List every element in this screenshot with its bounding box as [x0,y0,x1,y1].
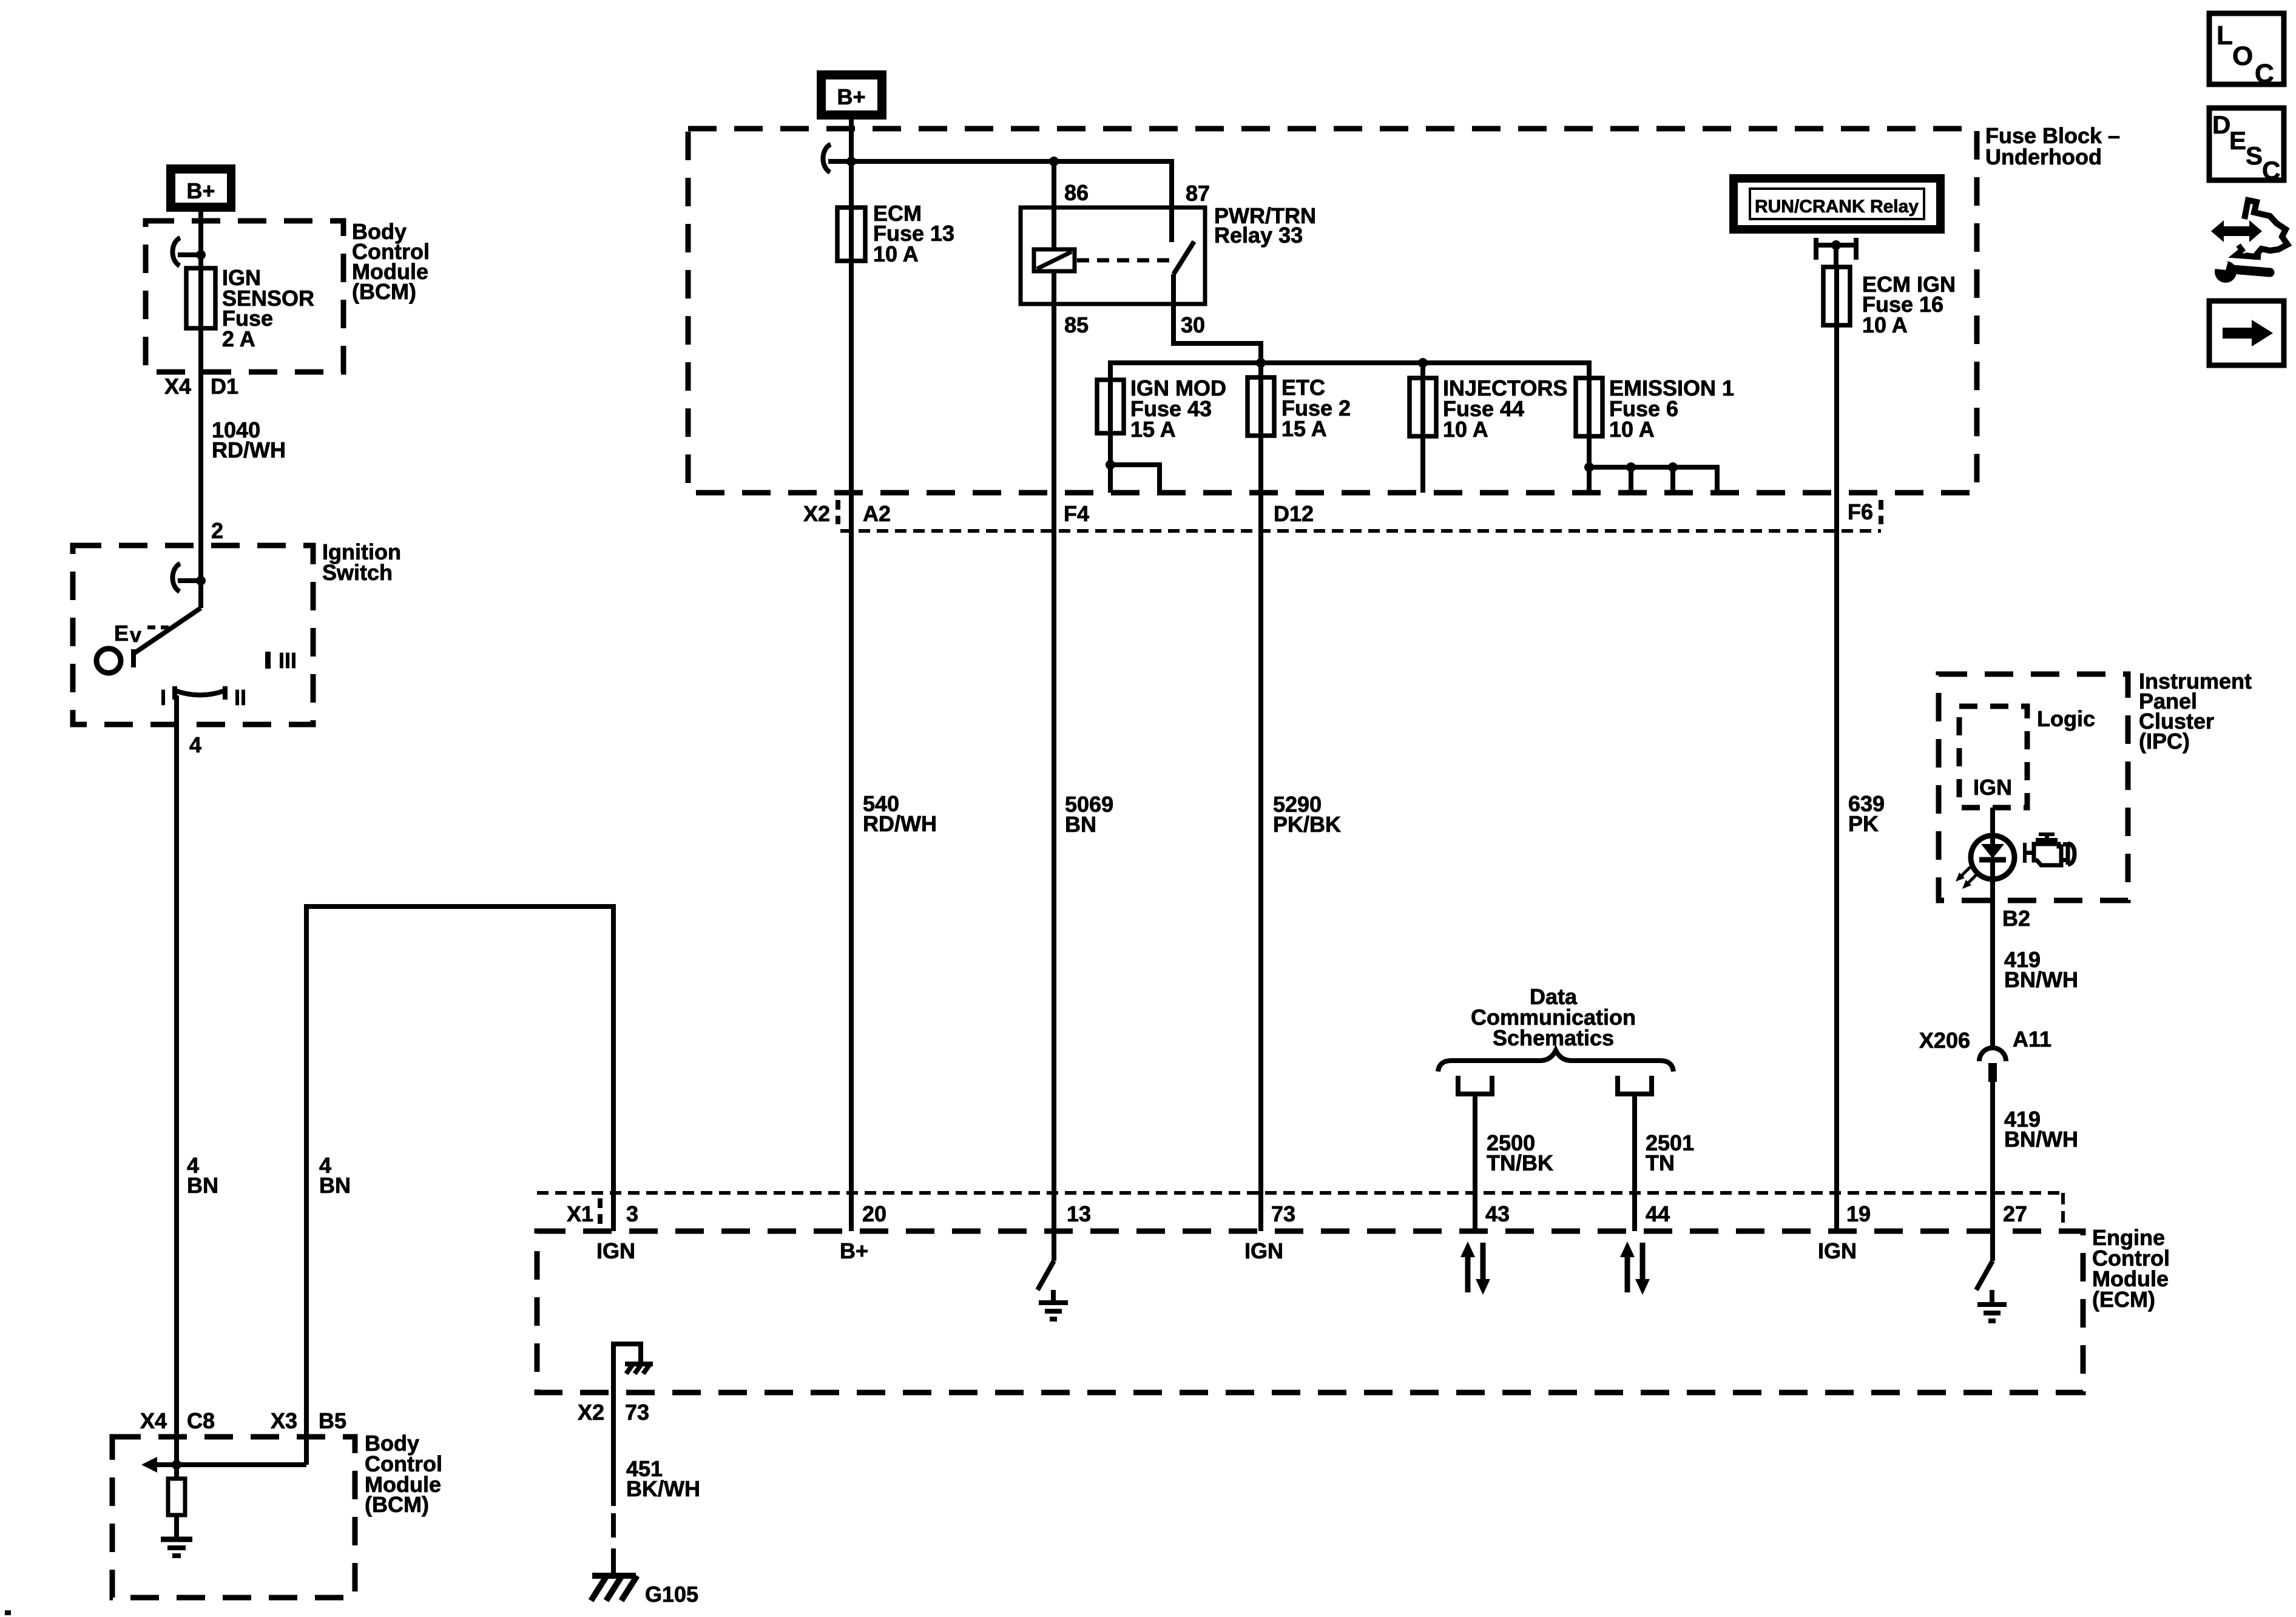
svg-text:87: 87 [1186,181,1210,206]
fuse INJECTORS Fuse 44 10A [1410,378,1436,436]
connector X2 dotted line [840,529,1881,533]
body control module (BCM) bottom box [112,1437,355,1598]
svg-text:RD/WH: RD/WH [212,437,286,462]
fuse EMISSION 1 Fuse 6 10A [1576,378,1602,436]
svg-text:3: 3 [626,1201,638,1226]
fuse IGN MOD Fuse 43 15A [1097,380,1124,433]
wire bus to relay [851,161,1172,208]
svg-text:C: C [2255,59,2274,89]
fuse ECM Fuse 13 10A [837,208,865,261]
switch rotor circle [96,649,121,673]
svg-text:BK/WH: BK/WH [626,1476,700,1501]
svg-text:D: D [2212,110,2230,139]
wire loop to ECM pin 3 [306,906,613,1465]
wire B+ into fuse block [849,120,854,208]
fuse ETC Fuse 2 15A [1248,377,1274,436]
wire LED to B2 pin [1990,879,1995,1048]
ECM fuse 13 label [873,201,954,266]
svg-text:II: II [234,685,246,710]
ECM label [2092,1225,2170,1312]
svg-text:X3: X3 [271,1408,297,1433]
pin 44 data arrows [1620,1241,1650,1295]
position marks I III [265,648,297,673]
RUN/CRANK Relay label box [1734,178,1940,229]
connector symbol 2501 [1615,1076,1654,1096]
wire label 4 BN (right) [319,1153,351,1198]
ground G105 [591,1576,698,1607]
svg-text:BN: BN [187,1173,218,1198]
connector X2 (ECM bottom) labels [578,1400,649,1425]
battery feed B+ (fuse block) [817,70,886,120]
pin 73 internal chassis ground hook [613,1344,641,1393]
relay output bracket [1816,238,1856,267]
node fuse 43 output [1106,460,1115,470]
svg-text:A11: A11 [2013,1027,2051,1052]
svg-text:X4: X4 [164,374,191,399]
engine icon [2023,832,2075,865]
svg-text:30: 30 [1181,312,1205,337]
relay pin labels [1064,180,1210,337]
wire pin 30 to fuse bus [1173,304,1261,363]
svg-text:(BCM): (BCM) [365,1492,429,1517]
wire label 639 PK [1848,791,1885,836]
ground (pin 27) [1977,1305,2007,1321]
svg-text:4: 4 [189,732,201,757]
svg-text:73: 73 [625,1400,649,1425]
EMISSION 1 fuse label [1609,376,1734,442]
connector labels X4 C8 X3 B5 [140,1408,346,1433]
svg-text:2 A: 2 A [222,326,255,351]
wire label 451 BK/WH [626,1456,700,1501]
svg-text:D12: D12 [1274,501,1314,526]
svg-text:BN: BN [319,1173,351,1198]
svg-text:D1: D1 [211,374,238,399]
position arc I-II [160,685,246,710]
pin 27 internal switch to ground [1976,1231,1993,1305]
wire ETC fuse feed [1258,363,1263,377]
wire under fuse 43 [1108,433,1113,493]
ECM pin labels [567,1201,2027,1226]
wire label 5069 BN [1065,792,1113,837]
svg-text:86: 86 [1064,180,1089,205]
page mark bottom-left [5,1610,11,1615]
svg-text:85: 85 [1064,312,1089,337]
battery feed B+ (BCM) [166,164,235,212]
svg-text:RUN/CRANK Relay: RUN/CRANK Relay [1755,197,1919,217]
svg-text:L: L [2217,21,2233,50]
IPC label [2139,669,2252,754]
svg-text:E: E [114,621,129,646]
wire label 2500 TN/BK [1487,1130,1553,1175]
IGN MOD fuse label [1130,376,1226,442]
ETC fuse label [1281,375,1351,441]
wire label 2501 TN [1646,1130,1694,1175]
relay contact blade [1173,241,1194,274]
wire 2500 TN/BK to ECM pin 43 [1473,1096,1477,1231]
svg-text:C: C [2262,156,2280,184]
wire 639 PK fuse16 to ECM pin 19 [1834,325,1839,1231]
connector X2 labels on fuse block [803,499,1881,526]
fuse block underhood box [688,129,1977,493]
position label Ev [114,621,169,647]
LOC icon [2209,13,2284,89]
relay coil [1034,249,1075,271]
wire to relay pin 86 [1052,161,1056,249]
next-page arrow icon [2209,301,2284,365]
svg-text:X206: X206 [1919,1028,1970,1053]
svg-text:PK: PK [1848,811,1879,836]
inline connector X206 A11 [1919,1027,2051,1082]
BCM label [352,219,430,304]
svg-text:X2: X2 [578,1400,604,1425]
wire logic to LED [1990,808,1995,845]
svg-text:IGN: IGN [1818,1238,1857,1263]
node BCM B+ junction [196,250,206,260]
wire 451 BK/WH [611,1393,616,1574]
relay PWR/TRN Relay 33 box [1021,208,1205,304]
svg-text:13: 13 [1067,1201,1091,1226]
connector X1 dotted line [537,1193,2063,1231]
logic block [1959,706,2027,808]
svg-text:X1: X1 [567,1201,593,1226]
svg-text:10 A: 10 A [1443,417,1488,442]
svg-text:RD/WH: RD/WH [863,811,937,836]
INJECTORS fuse label [1443,376,1567,442]
svg-text:IGN: IGN [1973,775,2012,800]
wire B+ to BCM [198,212,203,268]
svg-text:20: 20 [862,1201,886,1226]
svg-text:Relay 33: Relay 33 [1214,223,1303,248]
svg-text:X2: X2 [803,501,830,526]
wire 540 RD/WH fuse13 to ECM pin 20 [849,261,854,1231]
connector X1 tick [598,1198,603,1226]
wire fuse to ignition switch (1040 RD/WH) [198,328,203,545]
svg-text:TN: TN [1646,1150,1675,1175]
svg-text:10 A: 10 A [873,241,919,266]
node ignition switch pin 2 junction [196,576,206,586]
svg-text:O: O [2232,41,2253,71]
svg-text:Schematics: Schematics [1493,1025,1614,1050]
svg-text:X4: X4 [140,1408,167,1433]
wrench icon [2215,259,2270,283]
svg-text:PK/BK: PK/BK [1273,812,1341,837]
DESC icon [2209,108,2284,184]
ECM IGN fuse label [1862,272,1956,337]
pin 13 internal switch to ground [1038,1231,1054,1303]
relay pin 87 stub [1169,208,1174,242]
connector clip at BCM B+ entry [172,238,201,266]
wire label 540 RD/WH [863,791,937,836]
svg-text:IGN: IGN [1244,1238,1283,1263]
ECM pin function labels [596,1238,1857,1263]
body control module (BCM) top box [146,221,343,372]
svg-text:F4: F4 [1064,501,1089,526]
node bus at INJECTORS [1418,358,1428,368]
wire label 419 BN/WH (lower) [2004,1107,2078,1152]
wire pin 4 down [174,695,179,1465]
svg-text:19: 19 [1846,1201,1871,1226]
svg-text:10 A: 10 A [1862,312,1908,337]
svg-text:BN: BN [1065,812,1096,837]
connector symbol 2500 [1456,1076,1494,1096]
svg-text:B5: B5 [319,1408,346,1433]
relay actuator dashed link [1077,258,1170,263]
wire stub pin 2 [198,545,203,608]
svg-text:IGN: IGN [596,1238,635,1263]
indicator LED [1971,836,2014,879]
svg-text:BN/WH: BN/WH [2004,1127,2078,1152]
wire 85 to F4 (5069 BN) [1052,271,1056,1231]
svg-text:(ECM): (ECM) [2092,1287,2155,1312]
svg-text:73: 73 [1271,1201,1295,1226]
wire label 419 BN/WH (upper) [2004,947,2078,992]
svg-text:15 A: 15 A [1130,417,1176,442]
svg-text:(BCM): (BCM) [352,279,416,304]
node 86 branch [1049,157,1059,166]
svg-text:43: 43 [1485,1201,1510,1226]
LED emission arrows [1956,867,1977,889]
wire label 4 BN (left) [187,1153,218,1198]
wire INJECTORS fuse feed [1420,363,1425,378]
fuse IGN SENSOR 2A [186,268,215,328]
wire loop fuse 43 to block edge [1110,465,1160,493]
node comb junctions [1584,462,1678,472]
resistor (BCM internal) [168,1465,185,1539]
svg-text:S: S [2246,141,2263,170]
engine control module (ECM) box [537,1231,2083,1393]
relay pin 30 stub [1171,274,1176,304]
svg-text:27: 27 [2003,1201,2027,1226]
svg-text:C8: C8 [187,1408,215,1433]
svg-text:Underhood: Underhood [1985,144,2102,169]
svg-text:Logic: Logic [2037,706,2095,731]
chassis ground (X2 73) [625,1363,653,1374]
svg-text:10 A: 10 A [1609,417,1655,442]
wire label 1040 RD/WH [212,417,286,462]
svg-text:44: 44 [1646,1201,1670,1226]
svg-text:Switch: Switch [322,560,393,585]
wire 5290 PK/BK ETC to ECM pin 73 [1258,436,1263,1231]
svg-text:2: 2 [211,518,223,543]
wire under fuse 6 comb [1589,436,1717,493]
wire fuse bus [1110,363,1589,380]
svg-text:15 A: 15 A [1281,416,1327,441]
node B+ bus junction [846,157,856,166]
svg-text:A2: A2 [863,501,891,526]
fuse ECM IGN Fuse 16 10A [1823,267,1850,325]
switch blade (rotary contact) [133,608,201,667]
pin X4 D1 labels [164,374,238,399]
ground (BCM) [161,1539,192,1556]
connector clip at ignition switch pin 2 [172,564,201,592]
wire 2501 TN to ECM pin 44 [1632,1096,1637,1231]
svg-text:G105: G105 [645,1582,698,1607]
svg-text:B+: B+ [840,1238,868,1263]
svg-text:B2: B2 [2002,906,2030,931]
pin 43 data arrows [1460,1241,1490,1295]
svg-text:v: v [130,624,141,647]
wire label 5290 PK/BK [1273,792,1341,837]
relay label PWR/TRN Relay 33 [1214,203,1316,248]
svg-text:III: III [279,648,297,673]
wire junction inside BCM [141,1457,306,1473]
instrument panel cluster (IPC) box [1939,674,2128,900]
fuse block label [1985,123,2120,169]
svg-text:I: I [160,685,166,710]
ignition switch label [322,539,401,585]
diagnostic glove icon [2211,200,2288,257]
Data Communication Schematics label [1471,984,1636,1050]
wire under fuse 44 [1420,436,1425,493]
brace [1438,1050,1673,1072]
wire X206 to ECM pin 27 [1990,1082,1995,1231]
svg-text:E: E [2229,126,2246,155]
svg-text:TN/BK: TN/BK [1487,1150,1553,1175]
svg-text:B+: B+ [837,84,865,109]
IGN SENSOR fuse label [222,265,314,351]
node bus at ETC [1256,358,1266,368]
svg-text:(IPC): (IPC) [2139,729,2190,754]
svg-text:B+: B+ [186,178,215,203]
svg-text:BN/WH: BN/WH [2004,967,2078,992]
BCM bottom label [365,1431,442,1517]
connector clip at fuse block B+ entry [823,144,851,172]
svg-text:F6: F6 [1848,499,1873,524]
ground (pin 13) [1039,1303,1068,1319]
ignition switch box [73,545,313,724]
